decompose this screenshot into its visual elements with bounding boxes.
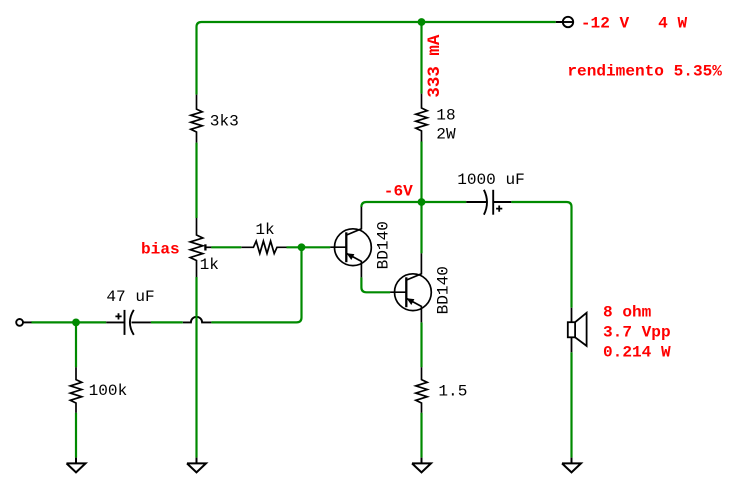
svg-text:100k: 100k [89,382,128,400]
svg-text:rendimento 5.35%: rendimento 5.35% [567,62,722,80]
svg-text:333 mA: 333 mA [425,34,445,98]
svg-text:8 ohm: 8 ohm [603,304,652,322]
svg-text:BD140: BD140 [434,266,452,314]
svg-text:0.214 W: 0.214 W [603,344,671,362]
svg-text:BD140: BD140 [374,221,392,269]
svg-text:1k: 1k [255,221,274,239]
svg-text:2W: 2W [436,126,456,144]
svg-text:1.5: 1.5 [438,382,467,400]
svg-text:3.7 Vpp: 3.7 Vpp [603,324,671,342]
svg-text:1k: 1k [200,256,219,274]
svg-text:47 uF: 47 uF [106,288,154,306]
svg-text:3k3: 3k3 [210,113,239,131]
svg-text:18: 18 [436,107,455,125]
svg-text:bias: bias [141,240,180,258]
svg-text:-6V: -6V [384,183,413,201]
svg-text:-12 V 4 W: -12 V 4 W [581,14,688,32]
svg-text:1000 uF: 1000 uF [457,171,525,189]
